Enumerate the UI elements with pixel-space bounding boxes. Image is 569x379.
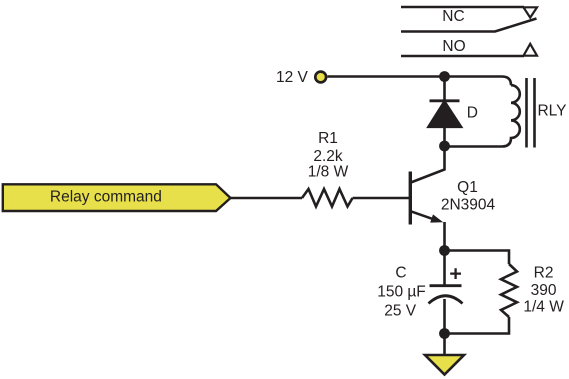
wire 12V supply to coil top [328,77,512,86]
svg-text:2N3904: 2N3904 [441,196,496,213]
svg-text:Relay command: Relay command [50,189,162,206]
svg-text:1/4 W: 1/4 W [523,299,564,316]
relay core line 2 [533,78,536,148]
junction dot top (12V / diode / coil) [439,71,450,82]
input flag Relay command [3,184,231,211]
junction dot emitter / R2 / capacitor [439,245,450,256]
svg-text:1/8 W: 1/8 W [308,164,349,181]
terminal 12V [315,72,326,83]
relay coil RLY [445,85,520,146]
capacitor C top plate [430,284,462,287]
svg-text:R1: R1 [318,130,338,147]
transistor Q1 emitter with arrow [411,211,437,220]
wire capacitor bottom to junction [443,299,446,334]
capacitor plus sign [450,268,461,279]
relay contact NC line [401,6,524,9]
diode D triangle [429,102,462,127]
svg-text:390: 390 [531,282,557,299]
junction dot diode bottom / coil bottom / collector [439,141,450,152]
wire junction to ground [443,334,446,356]
svg-text:RLY: RLY [537,102,566,119]
wire junction to capacitor top plate [443,251,446,286]
resistor R1 zigzag [302,189,353,207]
capacitor C bottom curved plate [429,296,463,304]
svg-text:150 µF: 150 µF [377,283,426,300]
resistor R2 zigzag [501,264,517,317]
wire collector [411,146,445,183]
relay core line 1 [525,78,528,148]
wire junction to R2 top [445,251,510,265]
svg-text:Q1: Q1 [457,179,478,196]
wire input to R1 [231,197,303,200]
svg-text:25 V: 25 V [384,303,417,320]
svg-text:D: D [467,105,478,122]
wire diode to lower junction [443,126,446,146]
svg-text:NO: NO [442,38,465,55]
diode D cathode bar [430,99,460,102]
relay contact NO terminal triangle [524,44,538,56]
svg-text:NC: NC [442,8,464,25]
junction dot capacitor bottom / R2 bottom / ground [439,328,450,339]
ground symbol [425,355,464,375]
wire R2 bottom to junction [445,317,510,334]
wire emitter down [443,222,446,251]
svg-text:2.2k: 2.2k [313,148,343,165]
svg-text:12 V: 12 V [276,69,309,86]
svg-text:R2: R2 [534,265,554,282]
relay contact NC terminal triangle [524,7,538,17]
svg-text:C: C [395,265,406,282]
wire diode anode-cathode vertical [443,77,446,101]
wire base [353,197,410,200]
relay switch arm wire [401,19,537,32]
relay contact NO line [401,55,524,58]
transistor Q1 base bar [409,172,412,225]
